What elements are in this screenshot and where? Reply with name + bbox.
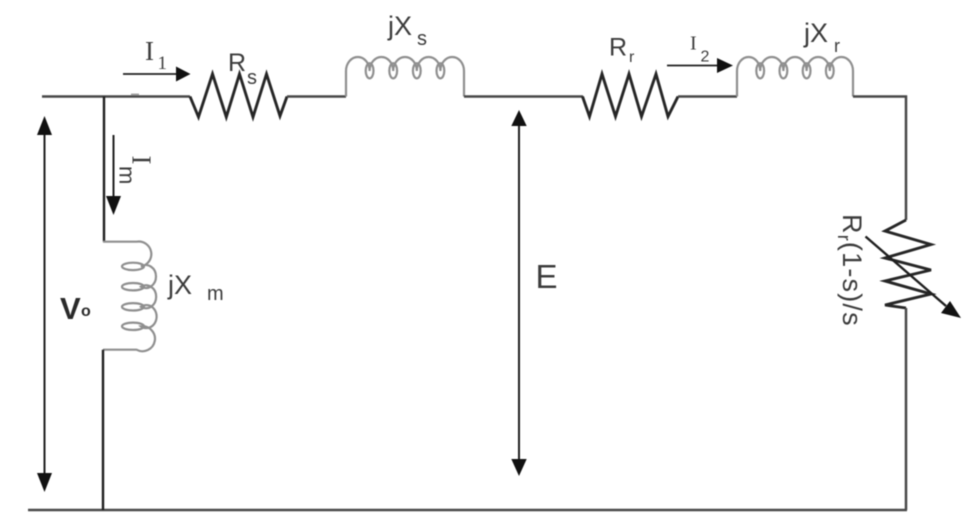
label jXs xyxy=(387,11,427,50)
svg-text:jX: jX xyxy=(387,11,412,41)
resistor Rr xyxy=(583,74,679,117)
svg-text:I: I xyxy=(127,156,157,165)
label Im rotated xyxy=(115,156,157,185)
wire between Rs and jXs xyxy=(287,95,346,98)
wire right bottom vertical xyxy=(905,308,908,510)
arrow Vo double xyxy=(37,116,52,492)
label Rr xyxy=(609,34,635,67)
svg-text:I: I xyxy=(145,36,154,66)
wire right corner down xyxy=(853,97,906,221)
node junction vertical wire xyxy=(103,97,105,242)
bottom rail xyxy=(28,509,907,512)
svg-text:jX: jX xyxy=(803,18,828,48)
svg-text:Rr(1-s)/s: Rr(1-s)/s xyxy=(834,214,867,327)
svg-text:m: m xyxy=(115,166,140,184)
wire between jXs and Rr xyxy=(464,95,583,98)
svg-text:m: m xyxy=(207,283,224,305)
label jXr xyxy=(803,18,840,56)
svg-text:o: o xyxy=(81,303,91,320)
label Rr(1-s)/s rotated xyxy=(834,214,867,327)
inductor jXs xyxy=(346,57,464,97)
svg-text:1: 1 xyxy=(158,53,168,74)
variable resistor Rr(1-s)/s zigzag xyxy=(885,220,931,308)
label jXm xyxy=(167,270,224,305)
wire jXm to bottom rail xyxy=(102,350,104,510)
arrow E double xyxy=(511,110,526,476)
svg-text:jX: jX xyxy=(167,270,192,300)
arrow I2 xyxy=(667,58,733,73)
faint tick artifact on top wire xyxy=(131,93,139,95)
wire top-left segment xyxy=(42,95,190,98)
wire between Rr and jXr xyxy=(678,95,737,98)
svg-text:r: r xyxy=(629,49,635,66)
label I2 xyxy=(690,33,710,66)
label I1 xyxy=(145,36,167,74)
arrow I1 xyxy=(123,67,191,82)
resistor Rs xyxy=(190,74,287,117)
svg-text:E: E xyxy=(536,258,558,295)
svg-text:R: R xyxy=(228,49,246,77)
variable resistor diagonal arrow xyxy=(866,237,962,319)
svg-text:I: I xyxy=(690,33,697,55)
svg-text:r: r xyxy=(834,36,840,56)
inductor jXr xyxy=(737,57,853,97)
inductor jXm xyxy=(103,241,157,351)
svg-text:s: s xyxy=(247,67,257,89)
svg-text:s: s xyxy=(417,28,427,50)
label Rs xyxy=(228,49,257,89)
svg-text:2: 2 xyxy=(701,49,710,66)
svg-text:V: V xyxy=(60,291,81,326)
label Vo xyxy=(60,291,91,326)
arrow Im xyxy=(106,135,121,215)
svg-text:R: R xyxy=(609,34,627,62)
